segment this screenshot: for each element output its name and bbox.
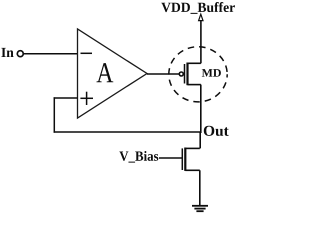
wire Out node down to NMOS drain xyxy=(199,132,201,148)
wire V_Bias to NMOS gate xyxy=(159,157,183,159)
PMOS source stub top xyxy=(188,62,201,64)
net label In xyxy=(1,48,13,57)
transistor MD (PMOS) xyxy=(179,63,201,86)
wire feedback horizontal from Out xyxy=(54,131,201,133)
op-amp gain label A xyxy=(97,63,114,82)
node Out label xyxy=(204,126,229,136)
NMOS channel bar xyxy=(184,148,186,171)
dashed highlight circle around MD xyxy=(169,47,227,102)
wire VDD rail xyxy=(200,21,202,64)
wire NMOS source to ground xyxy=(199,170,201,206)
NMOS gate bar xyxy=(181,148,183,170)
transistor M2 (NMOS current source) xyxy=(182,148,200,171)
wire feedback vertical xyxy=(53,97,55,132)
ground xyxy=(192,206,208,211)
NMOS source stub bottom xyxy=(185,169,200,171)
PMOS channel bar xyxy=(186,63,188,86)
transistor label MD xyxy=(202,69,221,77)
wire In to inverting input xyxy=(24,53,78,55)
op-amp U1 triangle xyxy=(78,29,148,118)
power arrow VDD xyxy=(199,14,203,20)
wire op-amp output to gate xyxy=(147,73,179,75)
input terminal circle xyxy=(17,51,23,57)
PMOS drain stub bottom xyxy=(188,84,201,86)
NMOS drain stub top xyxy=(185,147,200,149)
op-amp non-inverting input plus sign xyxy=(80,92,93,105)
PMOS gate bubble xyxy=(179,72,183,76)
wire non-inverting input xyxy=(54,97,78,99)
power net label VDD_Buffer xyxy=(161,2,235,14)
net label V_Bias xyxy=(119,151,158,163)
PMOS gate bar xyxy=(184,64,186,84)
op-amp inverting input minus sign xyxy=(81,52,93,54)
wire PMOS drain down to Out node xyxy=(200,85,202,133)
